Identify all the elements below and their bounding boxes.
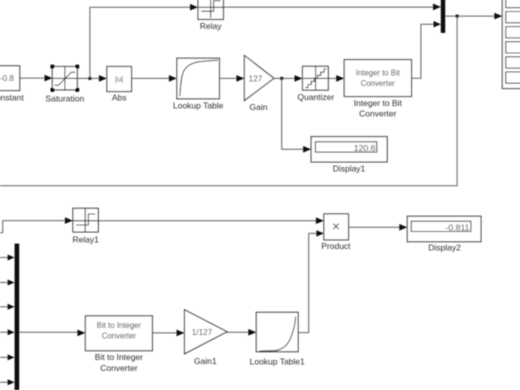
svg-text:Converter: Converter bbox=[100, 363, 137, 373]
svg-text:Converter: Converter bbox=[102, 332, 137, 341]
svg-text:Display2: Display2 bbox=[428, 242, 461, 252]
svg-text:Product: Product bbox=[321, 241, 351, 251]
svg-text:|u|: |u| bbox=[115, 74, 123, 83]
svg-text:Relay: Relay bbox=[200, 21, 222, 31]
svg-text:Converter: Converter bbox=[359, 109, 396, 119]
svg-text:Quantizer: Quantizer bbox=[297, 92, 334, 102]
svg-text:1/127: 1/127 bbox=[192, 328, 213, 337]
svg-text:Display1: Display1 bbox=[333, 163, 366, 173]
svg-text:Bit to Integer: Bit to Integer bbox=[97, 321, 142, 330]
svg-text:Gain1: Gain1 bbox=[194, 356, 217, 366]
svg-text:Constant: Constant bbox=[0, 92, 24, 102]
svg-text:127: 127 bbox=[249, 74, 263, 83]
svg-text:Lookup Table1: Lookup Table1 bbox=[250, 357, 305, 367]
svg-text:Abs: Abs bbox=[112, 93, 127, 103]
svg-text:Gain: Gain bbox=[250, 102, 268, 112]
svg-text:Integer to Bit: Integer to Bit bbox=[356, 68, 401, 77]
svg-text:Relay1: Relay1 bbox=[72, 234, 99, 244]
svg-text:-0.8: -0.8 bbox=[0, 74, 14, 83]
svg-text:Lookup Table: Lookup Table bbox=[173, 100, 224, 110]
svg-text:-0.811: -0.811 bbox=[446, 222, 470, 232]
svg-text:Saturation: Saturation bbox=[45, 93, 84, 103]
svg-text:Converter: Converter bbox=[361, 79, 396, 88]
svg-text:120.6: 120.6 bbox=[354, 143, 376, 153]
svg-text:Bit to Integer: Bit to Integer bbox=[95, 352, 143, 362]
svg-text:Integer to Bit: Integer to Bit bbox=[354, 98, 403, 108]
